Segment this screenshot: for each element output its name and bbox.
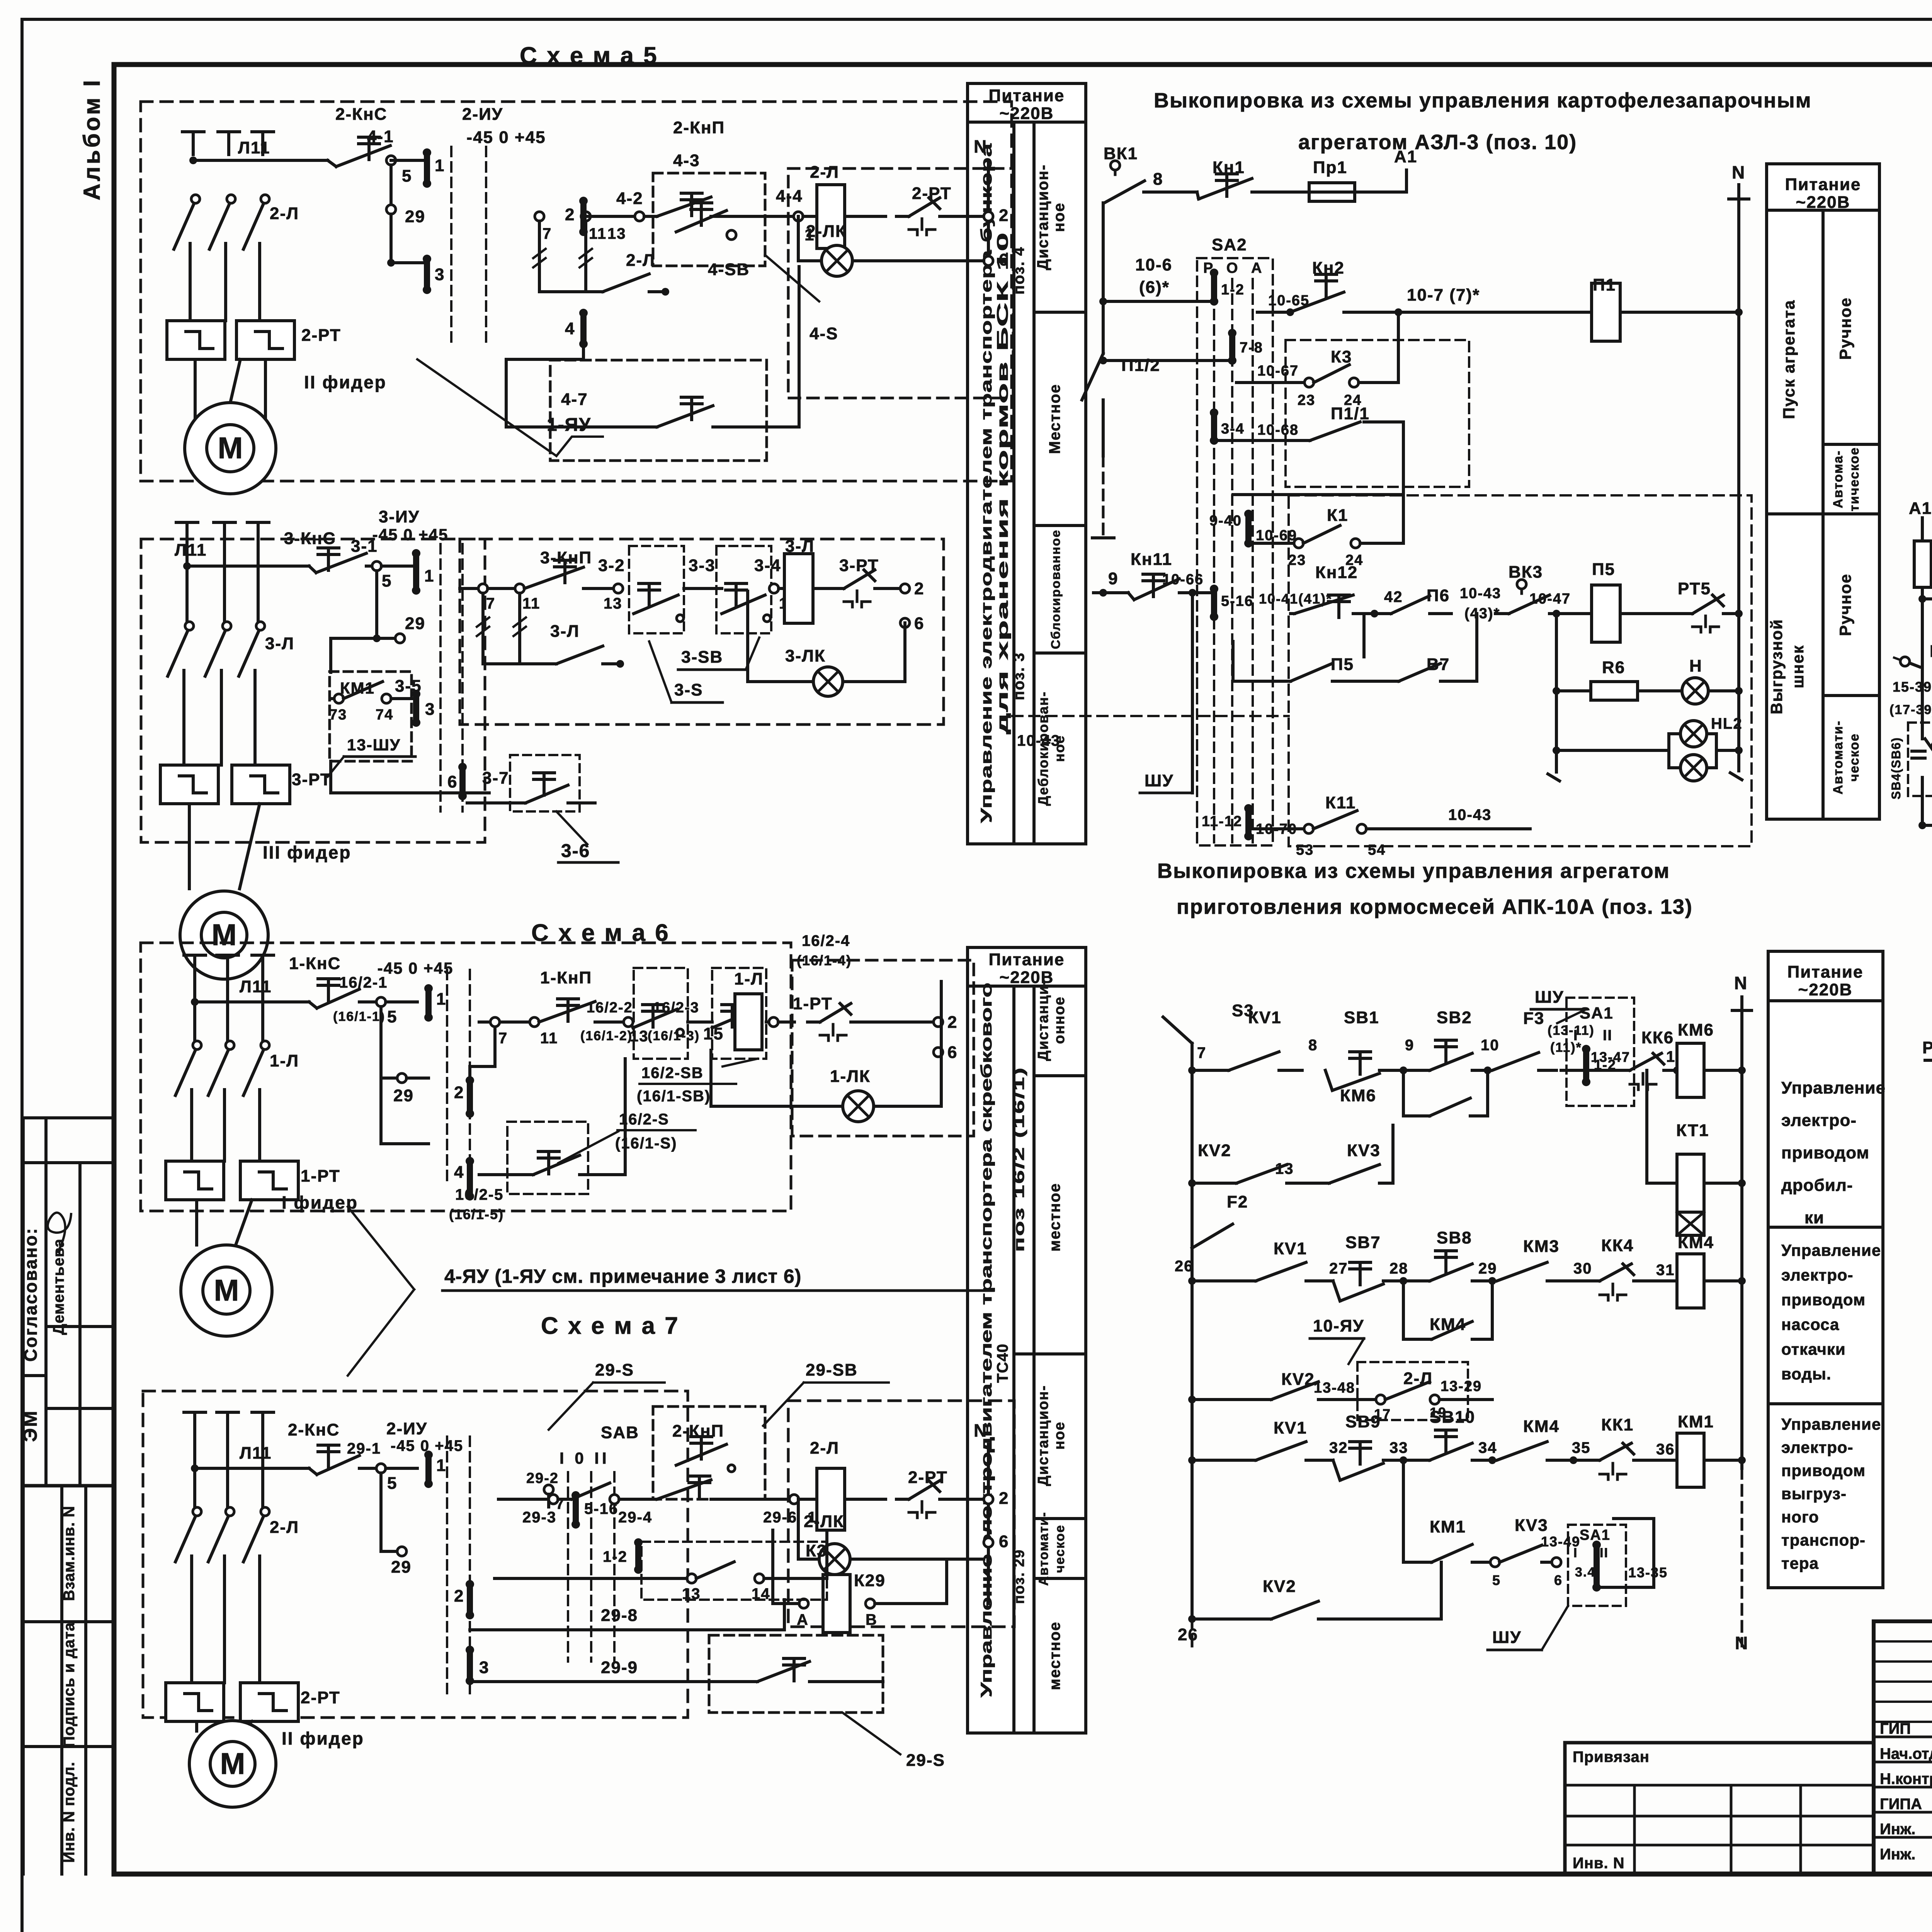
svg-text:I фидер: I фидер xyxy=(282,1192,358,1213)
table: Питание 220В / управление приводами дробилки, насоса, транспортера xyxy=(1768,951,1883,1588)
svg-text:10-67: 10-67 xyxy=(1257,363,1299,379)
svg-text:2-Л: 2-Л xyxy=(626,251,655,270)
svg-text:N: N xyxy=(1735,1633,1748,1653)
svg-text:1-2: 1-2 xyxy=(1221,282,1245,298)
svg-text:П1/2: П1/2 xyxy=(1121,356,1160,375)
svg-text:(16/1-4): (16/1-4) xyxy=(797,952,852,968)
dashed enclosure III фидер control part xyxy=(460,539,944,724)
svg-text:ШУ: ШУ xyxy=(1492,1628,1522,1647)
svg-text:электро-: электро- xyxy=(1781,1111,1857,1130)
plug 6 and 3-7 box xyxy=(459,767,466,796)
svg-text:Альбом I: Альбом I xyxy=(79,78,105,201)
svg-text:М: М xyxy=(214,1273,239,1307)
svg-text:9: 9 xyxy=(1405,1037,1414,1054)
svg-text:1: 1 xyxy=(435,156,445,175)
svg-text:23: 23 xyxy=(1298,392,1315,408)
motor M 2 (схема 7) xyxy=(189,1721,276,1807)
svg-text:3-S: 3-S xyxy=(674,680,703,699)
dashed selector lines xyxy=(450,147,452,342)
svg-text:Подпись и дата: Подпись и дата xyxy=(61,1622,78,1747)
svg-text:26: 26 xyxy=(1178,1625,1198,1644)
svg-text:29-3: 29-3 xyxy=(522,1509,556,1526)
wires to motor III xyxy=(188,804,191,889)
svg-text:Питание: Питание xyxy=(989,86,1065,105)
svg-text:(6)*: (6)* xyxy=(1139,278,1170,297)
svg-text:5-16: 5-16 xyxy=(1221,593,1253,609)
svg-text:SB4(SB6): SB4(SB6) xyxy=(1889,737,1903,799)
svg-text:SA1: SA1 xyxy=(1580,1004,1614,1022)
selector plug 1 (схема 7) xyxy=(425,1455,432,1484)
svg-text:10: 10 xyxy=(1481,1037,1500,1054)
dashed enclosure 2 feeder xyxy=(141,102,1012,481)
plug 2 (схема 7) xyxy=(467,1584,473,1615)
plug 3 (схема 7) xyxy=(467,1650,473,1681)
svg-text:приводом: приводом xyxy=(1781,1461,1866,1480)
svg-text:К1: К1 xyxy=(1327,506,1348,525)
svg-text:П1: П1 xyxy=(1593,276,1616,294)
dashed selector lines 3-ИУ xyxy=(439,544,442,811)
drop to 29 and КМ1 box xyxy=(375,571,378,634)
svg-text:15-39: 15-39 xyxy=(1893,679,1932,695)
term 29-2 and plugs 7 5-16 xyxy=(544,1485,553,1494)
svg-text:4-ЯУ (1-ЯУ см. примечание 3 ли: 4-ЯУ (1-ЯУ см. примечание 3 лист 6) xyxy=(444,1265,801,1287)
svg-text:С х е м а 5: С х е м а 5 xyxy=(520,43,658,69)
circuit breaker 2-Л xyxy=(191,195,200,203)
plug 1-2 xyxy=(1211,273,1217,301)
svg-text:1-ЛК: 1-ЛК xyxy=(830,1067,871,1086)
svg-text:13-35: 13-35 xyxy=(1628,1565,1668,1580)
wires to motor I xyxy=(195,1200,198,1245)
contactor coil 2-Л (схема 7) xyxy=(817,1468,845,1530)
svg-text:К3: К3 xyxy=(806,1541,827,1560)
svg-text:2-Л: 2-Л xyxy=(810,163,839,182)
svg-text:1-2: 1-2 xyxy=(603,1548,628,1565)
svg-text:N: N xyxy=(974,1420,987,1440)
circuit breaker 1-Л xyxy=(193,1041,201,1049)
svg-text:2: 2 xyxy=(999,1489,1009,1508)
svg-text:26: 26 xyxy=(1175,1258,1194,1275)
svg-text:Инв. N: Инв. N xyxy=(1573,1855,1625,1872)
svg-text:шнек: шнек xyxy=(1789,645,1807,689)
svg-text:3-РТ: 3-РТ xyxy=(292,770,332,789)
svg-text:КV3: КV3 xyxy=(1347,1141,1381,1160)
svg-text:поз. 3: поз. 3 xyxy=(1010,652,1027,700)
svg-text:Сблокированное: Сблокированное xyxy=(1049,529,1063,649)
svg-text:(16/1-5): (16/1-5) xyxy=(449,1206,504,1222)
svg-text:32: 32 xyxy=(1329,1439,1348,1456)
svg-text:1: 1 xyxy=(436,1456,446,1475)
selector plug 1 (III) xyxy=(413,553,419,590)
svg-text:16/2-4: 16/2-4 xyxy=(802,932,850,949)
svg-text:11: 11 xyxy=(540,1030,558,1047)
svg-text:3-2: 3-2 xyxy=(598,556,625,575)
svg-text:Управление: Управление xyxy=(1781,1415,1881,1433)
svg-text:I: I xyxy=(1573,1027,1578,1044)
svg-text:7-8: 7-8 xyxy=(1240,340,1263,356)
svg-text:ШУ: ШУ xyxy=(1535,988,1564,1007)
svg-text:29-6: 29-6 xyxy=(763,1509,797,1526)
svg-text:4: 4 xyxy=(454,1163,464,1182)
svg-text:Ручное: Ручное xyxy=(1836,573,1854,636)
node 3-4 15 and coil 3-Л xyxy=(769,584,779,593)
svg-text:6: 6 xyxy=(1554,1572,1563,1588)
svg-text:выгруз-: выгруз- xyxy=(1781,1485,1847,1503)
svg-text:КК1: КК1 xyxy=(1601,1415,1634,1434)
svg-text:29: 29 xyxy=(393,1086,414,1105)
svg-text:2-ИУ: 2-ИУ xyxy=(386,1419,427,1438)
left sidebar stamp table xyxy=(23,1116,114,1119)
svg-text:3-ЛК: 3-ЛК xyxy=(785,646,826,665)
plug 2 xyxy=(467,1080,473,1114)
svg-text:местное: местное xyxy=(1046,1621,1063,1690)
svg-text:электро-: электро- xyxy=(1781,1438,1854,1456)
svg-text:4-2: 4-2 xyxy=(616,189,643,208)
svg-text:Н.контр.: Н.контр. xyxy=(1880,1770,1932,1787)
svg-text:Питание: Питание xyxy=(1785,175,1861,194)
svg-text:Управление: Управление xyxy=(1781,1241,1881,1259)
link from column О xyxy=(1233,493,1403,496)
rail 2 control xyxy=(193,159,328,162)
svg-text:10-43: 10-43 xyxy=(1017,732,1060,749)
svg-text:ное: ное xyxy=(1051,1421,1068,1449)
svg-text:27: 27 xyxy=(1329,1260,1348,1277)
svg-text:~220В: ~220В xyxy=(1000,104,1054,123)
svg-text:Привязан: Привязан xyxy=(1573,1748,1650,1765)
svg-text:29-S: 29-S xyxy=(595,1361,634,1379)
svg-text:М: М xyxy=(220,1747,245,1781)
svg-text:КV1: КV1 xyxy=(1274,1239,1307,1258)
svg-text:КК6: КК6 xyxy=(1641,1028,1674,1047)
SA1 selector dashed box xyxy=(1566,998,1634,1106)
svg-text:КV1: КV1 xyxy=(1274,1418,1307,1437)
svg-text:5: 5 xyxy=(1492,1572,1501,1588)
svg-text:2-ИУ: 2-ИУ xyxy=(462,105,503,124)
thermal relay 1-РТ boxes xyxy=(166,1161,224,1200)
dashed contact box a (3-3) xyxy=(629,546,684,633)
svg-text:9-40: 9-40 xyxy=(1209,513,1242,529)
rail 2 (схема 7) xyxy=(498,1498,549,1501)
svg-text:3-ИУ: 3-ИУ xyxy=(379,507,420,526)
rail1 КV1 8 SB1 9 SB2 10 F3 xyxy=(1188,1066,1196,1074)
svg-text:SA1: SA1 xyxy=(1580,1527,1611,1543)
svg-text:Кн11: Кн11 xyxy=(1131,550,1172,569)
svg-text:10-47: 10-47 xyxy=(1529,591,1571,607)
svg-text:10-66: 10-66 xyxy=(1162,571,1204,588)
svg-text:Кн12: Кн12 xyxy=(1315,563,1358,582)
svg-text:1-Л: 1-Л xyxy=(734,969,764,988)
svg-text:Ручное: Ручное xyxy=(1836,297,1854,360)
svg-text:R6: R6 xyxy=(1602,658,1625,677)
svg-text:КV2: КV2 xyxy=(1263,1577,1296,1596)
leader 1-ЯУ xyxy=(417,359,556,456)
svg-text:II фидер: II фидер xyxy=(304,372,387,392)
svg-text:Взам.инв. N: Взам.инв. N xyxy=(61,1506,78,1601)
rail2 КV2 13 КV3 xyxy=(1188,1179,1196,1187)
КМ1 self-hold dashed box xyxy=(330,672,412,761)
R6 and Н lamp row xyxy=(1553,687,1560,695)
svg-text:6: 6 xyxy=(447,772,457,791)
sub dashed box 4-3 contacts xyxy=(653,173,765,266)
rail 1 control xyxy=(195,1000,309,1003)
svg-text:Пр1: Пр1 xyxy=(1313,158,1347,177)
svg-text:I 0 II: I 0 II xyxy=(560,1449,610,1467)
svg-text:М: М xyxy=(212,918,237,952)
svg-text:II фидер: II фидер xyxy=(282,1728,364,1748)
svg-text:(16/1-SB): (16/1-SB) xyxy=(637,1088,711,1105)
svg-text:28: 28 xyxy=(1389,1260,1408,1277)
svg-text:II: II xyxy=(1603,1027,1612,1044)
circuit breaker 3-Л xyxy=(185,622,194,630)
aux row 7 11 with hash marks and 2-Л contact xyxy=(535,212,544,221)
svg-text:N: N xyxy=(974,136,987,156)
thermal relay 2-РТ boxes xyxy=(167,321,225,359)
svg-text:КМ6: КМ6 xyxy=(1678,1020,1714,1039)
node 4-1 / selector column xyxy=(386,156,396,165)
svg-text:1-РТ: 1-РТ xyxy=(793,994,833,1013)
svg-text:Местное: Местное xyxy=(1046,384,1063,454)
svg-text:29-SB: 29-SB xyxy=(806,1361,858,1379)
svg-text:Питание: Питание xyxy=(1787,963,1864,981)
svg-text:Л11: Л11 xyxy=(240,1444,272,1463)
svg-text:ВК1: ВК1 xyxy=(1930,642,1932,661)
svg-text:ЭМ: ЭМ xyxy=(19,1410,41,1442)
svg-text:2: 2 xyxy=(454,1587,464,1605)
svg-text:Автома-: Автома- xyxy=(1831,450,1845,508)
svg-text:I: I xyxy=(1573,1546,1578,1560)
svg-text:КМ1: КМ1 xyxy=(1678,1412,1714,1431)
svg-text:ГИП: ГИП xyxy=(1880,1720,1911,1737)
rail 3 control xyxy=(187,565,309,568)
svg-text:II: II xyxy=(1600,1546,1609,1560)
svg-text:электро-: электро- xyxy=(1781,1266,1854,1284)
svg-text:1-ЯУ: 1-ЯУ xyxy=(547,415,591,435)
svg-text:SA2: SA2 xyxy=(1212,235,1247,254)
left attachment row Привязан xyxy=(1565,1741,1874,1745)
svg-text:Л11: Л11 xyxy=(240,977,272,996)
svg-text:Автомати-: Автомати- xyxy=(1036,1512,1051,1586)
svg-text:2: 2 xyxy=(914,579,924,598)
svg-text:4-S: 4-S xyxy=(810,324,838,343)
svg-text:29: 29 xyxy=(405,614,425,633)
svg-text:-45 0 +45: -45 0 +45 xyxy=(372,526,449,544)
svg-text:10-43: 10-43 xyxy=(1460,585,1501,602)
svg-text:29-1: 29-1 xyxy=(347,1440,381,1457)
svg-text:F2: F2 xyxy=(1227,1192,1248,1211)
svg-text:Дистанцион-: Дистанцион- xyxy=(1035,1385,1051,1486)
dashed enclosure right control box xyxy=(788,1401,1014,1627)
plug 4 xyxy=(467,1161,473,1196)
svg-text:Л11: Л11 xyxy=(238,138,270,157)
svg-text:13-47: 13-47 xyxy=(1591,1049,1630,1065)
svg-text:А1: А1 xyxy=(1394,147,1417,166)
svg-text:1: 1 xyxy=(436,990,446,1009)
sub dashed box above rail2 (схема 7) xyxy=(653,1406,765,1499)
SA1 lower dashed box with plug 3-4 13-35 xyxy=(1568,1525,1626,1606)
leader lines to 4-ЯУ xyxy=(348,1207,414,1289)
svg-text:14: 14 xyxy=(752,1585,770,1602)
contactor coil 2-Л xyxy=(817,185,845,248)
svg-text:3-Л: 3-Л xyxy=(550,622,580,641)
label 3-6 leader xyxy=(556,811,587,844)
svg-text:Выгрузной: Выгрузной xyxy=(1767,619,1786,714)
svg-text:29: 29 xyxy=(391,1558,412,1577)
table: Питание 220В / упр. эл-двигателем транспортера бункера БСК 10 xyxy=(968,83,1086,844)
svg-text:агрегатом АЗЛ-3 (поз. 10): агрегатом АЗЛ-3 (поз. 10) xyxy=(1298,131,1577,154)
svg-text:ческое: ческое xyxy=(1053,1524,1067,1573)
svg-text:SB7: SB7 xyxy=(1345,1233,1381,1252)
svg-text:4-7: 4-7 xyxy=(561,390,588,409)
svg-text:М: М xyxy=(218,431,243,465)
svg-text:15: 15 xyxy=(703,1024,724,1043)
thermal relay 2-РТ boxes (схема 7) xyxy=(166,1683,224,1721)
П1/1 contact row 10-68 xyxy=(1211,413,1217,440)
svg-text:9: 9 xyxy=(1108,569,1118,588)
svg-text:П5: П5 xyxy=(1331,655,1354,674)
dashed enclosure АЗЛ lower xyxy=(1289,495,1752,846)
svg-text:29-S: 29-S xyxy=(906,1751,945,1770)
svg-text:С х е м а 7: С х е м а 7 xyxy=(541,1313,680,1339)
svg-text:N: N xyxy=(1732,162,1745,182)
svg-text:4: 4 xyxy=(565,319,575,338)
svg-text:6: 6 xyxy=(947,1043,957,1062)
dashed box contact b xyxy=(712,968,766,1059)
drop to 29 (схема 7) xyxy=(379,1473,383,1551)
plug 5-16 xyxy=(1211,589,1217,617)
svg-text:SAB: SAB xyxy=(601,1423,639,1442)
svg-text:поз 16/2 (16/1): поз 16/2 (16/1) xyxy=(1011,1066,1027,1252)
rail4 КV1 32 SB9 33 SB10 34 КМ4 35 КК1 36 КМ1 xyxy=(1188,1456,1196,1464)
svg-text:HL2: HL2 xyxy=(1711,715,1743,732)
svg-text:ное: ное xyxy=(1051,202,1068,232)
svg-text:-45 0 +45: -45 0 +45 xyxy=(391,1437,463,1454)
svg-text:29-9: 29-9 xyxy=(601,1658,638,1677)
svg-text:1: 1 xyxy=(424,566,434,585)
svg-text:2-РТ: 2-РТ xyxy=(908,1468,948,1487)
svg-text:34: 34 xyxy=(1478,1439,1497,1456)
dashed box К3 П1/1 group xyxy=(1286,340,1469,487)
svg-text:3-4: 3-4 xyxy=(754,556,781,575)
dashed enclosure I фидер xyxy=(141,943,791,1211)
svg-text:3-7: 3-7 xyxy=(482,769,509,787)
svg-text:Управление электродвигателем т: Управление электродвигателем транспортер… xyxy=(978,143,995,823)
rail 3-2 with 7 11 and КнП xyxy=(460,587,478,590)
svg-text:73: 73 xyxy=(329,707,347,723)
svg-text:Нач.отд: Нач.отд xyxy=(1880,1745,1932,1762)
svg-text:5: 5 xyxy=(382,571,392,590)
hash marks and 3-Л aux xyxy=(481,593,485,664)
svg-text:1-КнП: 1-КнП xyxy=(540,968,592,987)
svg-text:23: 23 xyxy=(1288,552,1306,568)
dashed selector lines (схема 7) xyxy=(446,1437,448,1696)
svg-text:Выкопировка из схемы управл: Выкопировка из схемы управления агрегато… xyxy=(1157,859,1670,883)
svg-text:РТ5: РТ5 xyxy=(1678,579,1711,598)
svg-text:2-КнС: 2-КнС xyxy=(288,1420,340,1439)
svg-text:1-РТ: 1-РТ xyxy=(301,1167,340,1185)
svg-text:Инж.: Инж. xyxy=(1880,1821,1915,1838)
svg-text:16/2-SB: 16/2-SB xyxy=(641,1065,704,1082)
svg-text:для хранения кормов БСК 10: для хранения кормов БСК 10 xyxy=(994,232,1011,734)
node 3-1 xyxy=(372,561,381,571)
rail 1 control (схема 7) xyxy=(195,1467,309,1470)
svg-text:5: 5 xyxy=(402,167,412,185)
svg-text:13-ШУ: 13-ШУ xyxy=(347,736,401,754)
svg-text:ческое: ческое xyxy=(1847,733,1862,781)
svg-text:3-КнС: 3-КнС xyxy=(284,529,336,548)
svg-text:местное: местное xyxy=(1046,1183,1063,1252)
svg-text:3-SB: 3-SB xyxy=(681,648,723,667)
relay К29 row xyxy=(799,1599,808,1608)
svg-text:А1: А1 xyxy=(1909,499,1932,518)
svg-text:откачки: откачки xyxy=(1781,1340,1846,1358)
svg-text:54: 54 xyxy=(1368,842,1386,858)
svg-text:SB8: SB8 xyxy=(1437,1228,1472,1247)
svg-text:дробил-: дробил- xyxy=(1781,1176,1853,1195)
dashed enclosure III фидер feeder part xyxy=(141,539,485,842)
svg-text:6: 6 xyxy=(914,614,924,633)
svg-text:(16/1-2): (16/1-2) xyxy=(580,1029,633,1043)
svg-text:транспор-: транспор- xyxy=(1781,1531,1866,1549)
svg-text:6: 6 xyxy=(999,1532,1009,1551)
svg-text:КК4: КК4 xyxy=(1601,1236,1634,1255)
svg-text:К11: К11 xyxy=(1325,793,1356,812)
svg-text:11: 11 xyxy=(589,225,607,242)
svg-text:13: 13 xyxy=(1275,1160,1294,1177)
wire plug4 to 4-7 box xyxy=(506,344,603,427)
wires to motor 2 xyxy=(194,359,197,446)
svg-text:приводом: приводом xyxy=(1781,1143,1869,1162)
dashed wire 10-43 left xyxy=(1012,715,1289,717)
svg-text:3-3: 3-3 xyxy=(689,556,716,575)
svg-text:2-ЛК: 2-ЛК xyxy=(804,1512,844,1531)
motor M 2 xyxy=(185,403,276,494)
thermal relay 3-РТ boxes xyxy=(160,765,218,804)
svg-text:ГИПА: ГИПА xyxy=(1880,1796,1922,1813)
svg-text:ТС40: ТС40 xyxy=(994,1344,1011,1383)
svg-text:~220В: ~220В xyxy=(1798,980,1853,999)
svg-text:ВК1: ВК1 xyxy=(1104,144,1138,163)
svg-text:2-РТ: 2-РТ xyxy=(301,1688,340,1707)
svg-text:2: 2 xyxy=(947,1013,957,1032)
dashed enclosure II фидер (схема 7) xyxy=(143,1391,688,1718)
contactor coil 1-Л xyxy=(735,994,762,1050)
svg-text:2-РТ: 2-РТ xyxy=(301,326,341,345)
svg-text:10-6: 10-6 xyxy=(1135,255,1172,274)
svg-text:1-КнС: 1-КнС xyxy=(289,954,341,973)
svg-text:2-Л: 2-Л xyxy=(270,1518,299,1537)
svg-text:SB2: SB2 xyxy=(1437,1008,1472,1027)
svg-text:29: 29 xyxy=(405,207,425,226)
phase lines I xyxy=(184,954,206,957)
svg-text:7: 7 xyxy=(498,1030,508,1047)
svg-text:(16/1-1): (16/1-1) xyxy=(333,1009,385,1024)
svg-text:КV1: КV1 xyxy=(1248,1008,1282,1027)
table: Питание 220В / Пуск агрегата / Выгрузной шнек xyxy=(1767,164,1879,819)
svg-text:7: 7 xyxy=(486,595,495,612)
svg-text:КМ3: КМ3 xyxy=(1523,1237,1560,1256)
svg-text:В: В xyxy=(866,1611,878,1628)
svg-text:31: 31 xyxy=(1656,1262,1675,1279)
svg-text:13: 13 xyxy=(607,225,626,242)
svg-text:(13-11): (13-11) xyxy=(1548,1023,1595,1038)
svg-text:КМ4: КМ4 xyxy=(1678,1233,1714,1252)
svg-text:53: 53 xyxy=(1296,842,1314,858)
motor M 1 xyxy=(181,1245,272,1336)
svg-text:13-48: 13-48 xyxy=(1314,1380,1355,1396)
svg-text:42: 42 xyxy=(1384,588,1403,605)
svg-text:30: 30 xyxy=(1573,1260,1592,1277)
svg-text:SB10: SB10 xyxy=(1430,1408,1475,1427)
circuit breaker 2-Л (схема 7) xyxy=(193,1507,201,1516)
